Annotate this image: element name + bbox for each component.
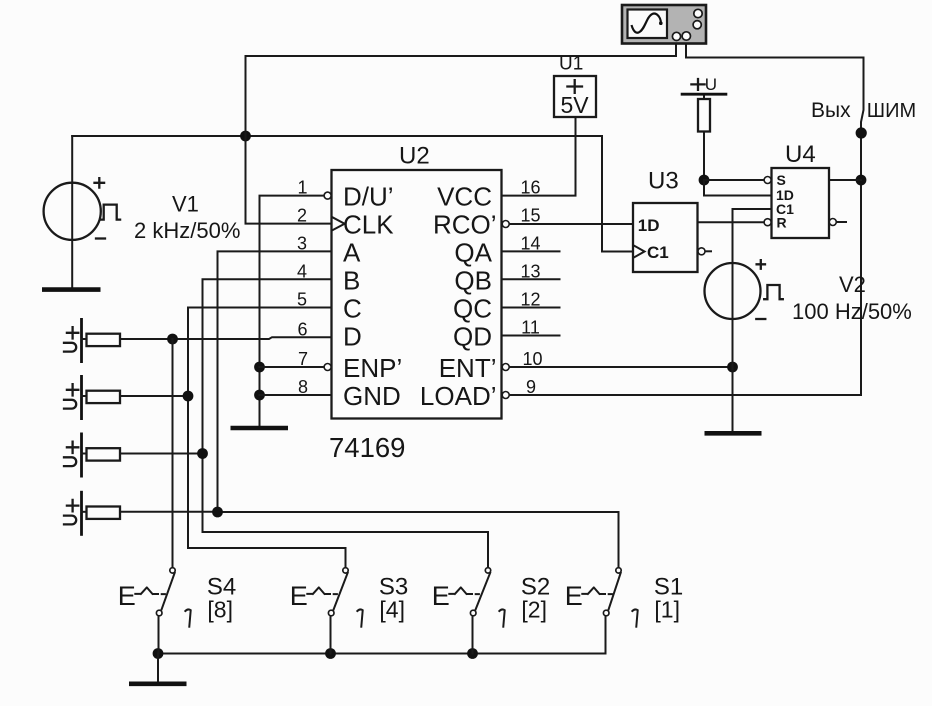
- source V1 2kHz: [44, 178, 121, 240]
- node S2 bus junction: [467, 648, 478, 659]
- node bit2 row junction: [197, 448, 208, 459]
- wire V2 top to U4 C1 input: [733, 208, 772, 210]
- U4 pin labels: [776, 172, 794, 231]
- svg-text:D/U’: D/U’: [343, 182, 394, 212]
- power terminal +U bit8 row: [64, 318, 87, 363]
- wire LOAD pin 9: [510, 394, 861, 396]
- wire +U resistor top: [703, 95, 705, 100]
- svg-text:1D: 1D: [638, 216, 660, 235]
- wire GND pin 8: [260, 394, 332, 396]
- wire QA stub pin 14: [502, 250, 560, 252]
- svg-text:11: 11: [521, 318, 540, 338]
- svg-text:A: A: [343, 237, 361, 267]
- svg-text:5V: 5V: [561, 92, 590, 118]
- U2 pin numbers right: [520, 178, 542, 397]
- svg-text:U: U: [705, 75, 717, 94]
- power U1 5V: [554, 76, 596, 117]
- wire junction up and to scope left terminal: [246, 56, 677, 136]
- wire pin 6 D row with jog: [120, 337, 332, 339]
- svg-text:U4: U4: [785, 141, 816, 168]
- svg-text:10: 10: [522, 349, 542, 369]
- svg-text:C: C: [343, 294, 362, 324]
- wire S2 bottom riser: [472, 616, 474, 653]
- svg-text:QC: QC: [453, 294, 492, 324]
- svg-text:B: B: [343, 265, 360, 295]
- svg-text:15: 15: [520, 206, 540, 226]
- svg-text:2 kHz/50%: 2 kHz/50%: [134, 218, 240, 243]
- switch S2: [432, 568, 505, 627]
- node PWM output: [856, 127, 867, 138]
- wire pin 3 A vertical to bit1 row: [218, 251, 332, 512]
- wire RCO pin 15 to U3 1D input: [510, 223, 633, 225]
- wire bit1 row to S1: [120, 512, 619, 567]
- svg-text:1: 1: [297, 178, 307, 198]
- flip-flop U3 box: [633, 203, 698, 272]
- svg-text:S: S: [777, 172, 786, 188]
- wire node to U4 1D input: [704, 180, 772, 196]
- wire U3 inverted output stub: [706, 250, 712, 252]
- svg-text:3: 3: [297, 234, 307, 254]
- svg-text:CLK: CLK: [343, 210, 394, 240]
- ground V2: [705, 431, 762, 436]
- source V2 100Hz: [705, 260, 783, 319]
- svg-text:13: 13: [520, 261, 540, 281]
- U2 pin 15 bubble: [502, 221, 509, 228]
- U2 left pin labels: [343, 182, 402, 411]
- svg-text:E: E: [118, 581, 136, 611]
- svg-text:ШИМ: ШИМ: [867, 100, 916, 122]
- wire U4 output to PWM net: [829, 179, 861, 181]
- svg-text:U3: U3: [648, 168, 679, 195]
- resistor bit2: [87, 448, 121, 460]
- node S4 bus junction: [153, 648, 164, 659]
- svg-text:QD: QD: [453, 322, 492, 352]
- wire ENT pin 10: [510, 366, 733, 368]
- resistor pull-up R5: [698, 99, 710, 132]
- svg-text:7: 7: [298, 349, 308, 369]
- svg-text:E: E: [565, 581, 583, 611]
- svg-text:100 Hz/50%: 100 Hz/50%: [792, 299, 912, 324]
- oscilloscope XSC1: [622, 5, 706, 44]
- svg-text:[8]: [8]: [207, 597, 233, 623]
- wire QD stub pin 11: [502, 335, 560, 337]
- U2 pin 2 clock triangle: [332, 217, 345, 231]
- ground U2 digital: [231, 426, 289, 431]
- wire V2 vertical through source to ground: [732, 209, 734, 431]
- svg-text:C1: C1: [647, 243, 669, 262]
- wire scope right terminal stub: [685, 43, 687, 58]
- U2 pin 7 bubble: [324, 364, 331, 371]
- svg-text:RCO’: RCO’: [433, 210, 497, 240]
- svg-text:6: 6: [297, 320, 307, 340]
- counter U2 74169 box: [332, 170, 502, 419]
- node A junction V1/scope/CLK: [240, 131, 251, 142]
- svg-text:12: 12: [520, 290, 540, 310]
- wire +U resistor bottom to node: [703, 132, 705, 181]
- latch U4 box: [772, 168, 830, 238]
- wire CLK net to U3 C1 input: [602, 136, 633, 252]
- wire pin 5 C vertical to S3: [188, 308, 346, 568]
- svg-text:E: E: [432, 581, 450, 611]
- svg-text:8: 8: [298, 377, 308, 397]
- node +U/S/1D junction: [699, 175, 710, 186]
- resistor bit1: [87, 507, 121, 519]
- svg-text:16: 16: [520, 178, 540, 198]
- svg-text:V2: V2: [839, 272, 866, 297]
- U3 pin labels: [638, 216, 669, 262]
- svg-text:ENP’: ENP’: [343, 353, 402, 383]
- U4 inverted output bubble: [829, 219, 836, 226]
- wire bit4 row: [120, 395, 188, 397]
- node S3 bus junction: [325, 648, 336, 659]
- U2 pin 1 bubble: [324, 192, 331, 199]
- U3 C1 clock triangle: [633, 245, 644, 258]
- wire ENP pin 7: [260, 366, 325, 368]
- svg-text:U1: U1: [559, 53, 583, 74]
- wire bus to ground: [157, 654, 159, 682]
- wire S3 bottom riser: [330, 616, 332, 653]
- ground switches: [129, 681, 187, 686]
- svg-text:QA: QA: [454, 237, 492, 267]
- U4 S input bubble: [764, 177, 771, 184]
- wire bottom bus: [158, 617, 606, 654]
- node ENP junction: [254, 362, 265, 373]
- wire junction down to CLK pin 2: [246, 136, 332, 224]
- node U4 output junction: [856, 175, 867, 186]
- svg-text:[2]: [2]: [521, 597, 547, 623]
- svg-text:74169: 74169: [329, 432, 405, 463]
- wire pin 1 D/U to ground net: [260, 196, 325, 426]
- svg-text:14: 14: [520, 234, 540, 254]
- wire V1 top to CLK net horizontal: [72, 135, 602, 137]
- svg-text:U2: U2: [399, 143, 430, 170]
- svg-text:5: 5: [297, 290, 307, 310]
- svg-text:V1: V1: [172, 192, 199, 217]
- node V2/ENT junction: [727, 362, 738, 373]
- wire bit2 row: [120, 453, 203, 455]
- wire scope right to PWM net vertical: [686, 58, 864, 396]
- ground V1: [42, 287, 101, 292]
- svg-text:2: 2: [297, 206, 307, 226]
- wire node to U4 S input: [704, 179, 764, 181]
- power terminal +U top: [681, 75, 728, 94]
- wire pin 4 B vertical to S2: [203, 279, 489, 567]
- wire bit8 vertical to S4: [172, 339, 174, 567]
- node bit4 row junction: [183, 391, 194, 402]
- node bit1 row junction: [212, 507, 223, 518]
- switch S4: [118, 568, 191, 627]
- wire S4 bottom riser: [158, 616, 160, 653]
- svg-text:GND: GND: [343, 381, 401, 411]
- svg-text:VCC: VCC: [437, 182, 492, 212]
- svg-text:9: 9: [526, 377, 536, 397]
- svg-text:E: E: [290, 581, 308, 611]
- svg-text:D: D: [343, 322, 362, 352]
- node bit8 row junction: [167, 334, 178, 345]
- svg-text:Вых: Вых: [811, 99, 851, 122]
- resistor bit4: [87, 391, 121, 403]
- wire QB stub pin 13: [502, 278, 560, 280]
- U2 pin 9 bubble: [502, 392, 509, 399]
- U2 pin numbers left: [297, 178, 308, 397]
- power terminal +U bit2 row: [64, 433, 87, 478]
- resistor bit8: [87, 334, 121, 346]
- switch S3: [290, 568, 363, 627]
- svg-text:LOAD’: LOAD’: [420, 381, 497, 411]
- svg-text:[1]: [1]: [654, 597, 680, 623]
- wire scope left terminal stub: [675, 43, 677, 56]
- svg-text:4: 4: [297, 261, 307, 281]
- U2 pin 10 bubble: [502, 364, 509, 371]
- svg-text:ENT’: ENT’: [439, 353, 497, 383]
- node GND junction: [254, 390, 265, 401]
- wire U4 inverted output stub: [837, 221, 846, 223]
- wire U3 output to U4 R input: [698, 221, 764, 223]
- svg-text:[4]: [4]: [379, 597, 405, 623]
- switch S1: [565, 568, 638, 627]
- wire VCC pin 16 to U1: [502, 117, 576, 196]
- wire QC stub pin 12: [502, 307, 560, 309]
- power terminal +U bit4 row: [64, 375, 87, 420]
- svg-text:R: R: [777, 215, 787, 231]
- U2 right pin labels: [420, 182, 497, 411]
- wire V1 vertical through source to ground: [71, 136, 73, 288]
- U3 inverted output bubble: [698, 248, 705, 255]
- U4 R input bubble: [764, 219, 771, 226]
- power terminal +U bit1 row: [64, 491, 87, 536]
- svg-text:QB: QB: [454, 265, 492, 295]
